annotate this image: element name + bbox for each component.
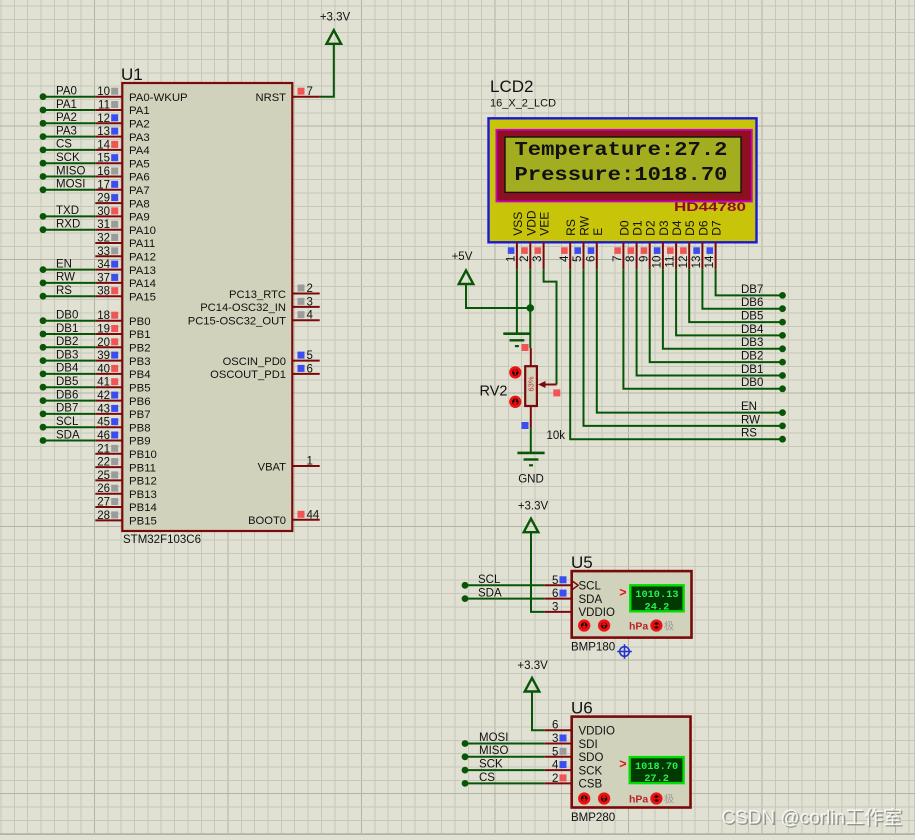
svg-text:D3: D3 [657, 220, 671, 236]
svg-text:SCK: SCK [56, 152, 80, 164]
LCD display LCD2 16_X_2_LCD [489, 118, 757, 242]
svg-text:11: 11 [98, 100, 110, 112]
svg-text:PA1: PA1 [56, 99, 77, 111]
svg-text:DB3: DB3 [741, 337, 763, 349]
wire LCD RS to terminal [570, 269, 786, 442]
wire LCD DB0 to terminal [623, 269, 785, 392]
svg-text:DB5: DB5 [56, 376, 78, 388]
svg-text:>: > [619, 757, 626, 771]
wire CS to U6 pin 2 [462, 772, 545, 787]
RV2 wiper arrow [538, 381, 560, 396]
LCD2 pin 5 (RW) [572, 215, 591, 269]
svg-text:DB7: DB7 [56, 403, 78, 415]
U6 hPa label [629, 793, 648, 805]
svg-text:VDD: VDD [524, 210, 538, 236]
svg-text:39: 39 [97, 350, 110, 362]
svg-text:D6: D6 [696, 220, 710, 236]
U1 pin 26 (PB13) [95, 483, 157, 501]
svg-text:43: 43 [97, 403, 110, 415]
power +3.3V (U5) [518, 501, 549, 533]
svg-text:D2: D2 [644, 220, 658, 236]
svg-text:+3.3V: +3.3V [517, 660, 548, 672]
potentiometer RV2 body [525, 366, 537, 406]
svg-text:PA2: PA2 [129, 119, 150, 131]
svg-text:RS: RS [741, 428, 757, 440]
svg-text:6: 6 [585, 256, 597, 262]
wire SCL to U5 [462, 574, 545, 589]
U1 value label STM32F103C6 [123, 534, 201, 546]
svg-text:PA10: PA10 [129, 225, 156, 237]
svg-text:3: 3 [307, 296, 313, 308]
svg-text:22: 22 [97, 457, 110, 469]
U6 pin 6 (VDDIO) [545, 720, 615, 738]
U1 pin 44 (BOOT0) [248, 509, 320, 527]
junction node VDD/+5V [527, 304, 535, 312]
wire SDA to U5 [462, 587, 545, 602]
svg-text:DB6: DB6 [56, 389, 78, 401]
svg-text:DB1: DB1 [741, 364, 763, 376]
svg-text:MISO: MISO [56, 165, 85, 177]
U1 pin 11 (PA1) [95, 100, 149, 118]
svg-text:6: 6 [552, 588, 558, 600]
sensor U5 BMP180 body [572, 571, 692, 638]
svg-text:20: 20 [97, 337, 110, 349]
U1 pin 34 (PA13) [95, 259, 156, 277]
svg-text:D4: D4 [670, 220, 684, 236]
wire LCD DB7 to terminal [716, 269, 786, 299]
LCD screen text line 1 [515, 139, 728, 161]
svg-text:PA3: PA3 [56, 125, 77, 137]
svg-text:PA12: PA12 [129, 252, 156, 264]
svg-text:RV2: RV2 [480, 384, 508, 400]
svg-text:13: 13 [97, 126, 110, 138]
svg-text:29: 29 [97, 193, 110, 205]
power +3.3V (NRST) [320, 12, 351, 44]
svg-text:hPa: hPa [629, 793, 648, 805]
U1 pin 12 (PA2) [95, 113, 149, 131]
U5 mode button [652, 621, 661, 630]
LCD2 pin 14 (D7) [704, 220, 723, 269]
svg-text:MOSI: MOSI [56, 179, 85, 191]
svg-text:21: 21 [97, 443, 110, 455]
wire LCD DB1 to terminal [637, 269, 786, 379]
LCD2 pin 8 (D1) [625, 220, 644, 269]
svg-text:25: 25 [97, 470, 110, 482]
svg-text:34: 34 [97, 259, 110, 271]
svg-text:VDDIO: VDDIO [579, 726, 615, 738]
svg-text:4: 4 [559, 255, 571, 262]
U6 value label BMP280 [571, 812, 615, 824]
wire LCD DB4 to terminal [676, 269, 786, 339]
U5 pin 6 (SDA) [545, 588, 603, 606]
U1 pin 33 (PA12) [95, 246, 156, 264]
U1 pin 42 (PB6) [95, 390, 150, 408]
svg-text:PA6: PA6 [129, 172, 150, 184]
U1 pin 27 (PB14) [95, 497, 157, 515]
svg-text:32: 32 [97, 233, 110, 245]
wire net DB3 to U1 pin 39 [40, 349, 96, 364]
svg-text:PA0: PA0 [56, 86, 77, 98]
U5 pin 5 (SCL) [545, 575, 602, 593]
svg-text:DB6: DB6 [741, 297, 763, 309]
svg-text:VEE: VEE [538, 212, 552, 236]
wire LCD DB3 to terminal [663, 269, 786, 352]
svg-text:PC14-OSC32_IN: PC14-OSC32_IN [200, 302, 286, 314]
RV2 up button [511, 368, 520, 377]
svg-text:RS: RS [564, 219, 578, 236]
svg-text:15: 15 [97, 153, 110, 165]
svg-text:45: 45 [97, 417, 110, 429]
LCD2 pin 2 (VDD) [519, 210, 538, 269]
U1 pin 19 (PB1) [95, 324, 150, 342]
U1 pin 28 (PB15) [95, 510, 157, 528]
svg-text:3: 3 [532, 256, 544, 262]
svg-text:1010.13: 1010.13 [635, 589, 678, 601]
wire net PA2 to U1 pin 12 [40, 112, 96, 127]
svg-text:VSS: VSS [511, 212, 525, 236]
U1 reference label [121, 65, 143, 84]
U5 up button [599, 621, 608, 630]
svg-text:GND: GND [518, 474, 544, 486]
wire LCD RW to terminal [584, 269, 786, 429]
svg-text:PA2: PA2 [56, 112, 77, 124]
svg-text:12: 12 [678, 256, 690, 269]
LCD2 pin 4 (RS) [559, 219, 578, 269]
U5 display value 1010.13 / 24.2 [630, 585, 683, 613]
LCD2 pin 9 (D2) [638, 220, 657, 269]
wire NRST to +3.3V [320, 44, 334, 97]
svg-text:PA4: PA4 [129, 145, 150, 157]
watermark [721, 807, 903, 831]
U1 pin 25 (PB12) [95, 470, 157, 488]
U1 pin 10 (PA0-WKUP) [95, 86, 187, 104]
svg-text:PC13_RTC: PC13_RTC [229, 289, 286, 301]
svg-text:46: 46 [97, 430, 110, 442]
svg-text:DB2: DB2 [56, 336, 78, 348]
svg-text:SDA: SDA [478, 587, 502, 599]
svg-text:DB4: DB4 [56, 363, 79, 375]
U6 reference label [571, 699, 593, 718]
svg-text:OSCOUT_PD1: OSCOUT_PD1 [210, 369, 286, 381]
svg-text:RW: RW [56, 272, 75, 284]
svg-text:SCL: SCL [478, 574, 501, 586]
U1 pin 43 (PB7) [95, 403, 150, 421]
svg-text:PB8: PB8 [129, 422, 151, 434]
svg-text:CSDN @corlin工作室: CSDN @corlin工作室 [721, 807, 902, 829]
svg-text:PB15: PB15 [129, 516, 157, 528]
svg-text:14: 14 [704, 255, 716, 268]
svg-text:16: 16 [97, 166, 110, 178]
svg-text:30: 30 [97, 206, 110, 218]
svg-text:SDA: SDA [579, 594, 603, 606]
U6 mode button [652, 794, 661, 803]
U1 pin 46 (PB9) [95, 430, 150, 448]
svg-text:>: > [619, 586, 626, 600]
svg-text:7: 7 [612, 256, 624, 262]
svg-text:DB2: DB2 [741, 351, 763, 363]
svg-text:33: 33 [97, 246, 110, 258]
LCD2 pin 11 (D4) [665, 220, 684, 269]
U1 pin 20 (PB2) [95, 337, 150, 355]
U1 pin 1 (VBAT) [258, 456, 320, 474]
svg-text:12: 12 [97, 113, 110, 125]
svg-text:CS: CS [479, 772, 495, 784]
U1 pin 29 (PA8) [95, 193, 149, 211]
U1 pin 18 (PB0) [95, 310, 150, 328]
svg-text:5: 5 [572, 256, 584, 262]
svg-text:2: 2 [519, 256, 531, 262]
svg-text:PB11: PB11 [129, 462, 156, 474]
svg-text:1: 1 [506, 256, 518, 262]
U5 pin 5 clock chevron [572, 581, 578, 590]
svg-text:2: 2 [307, 283, 313, 295]
svg-text:14: 14 [97, 139, 110, 151]
U1 pin 3 (PC14-OSC32_IN) [200, 296, 320, 314]
svg-text:3: 3 [552, 733, 558, 745]
U1 pin 22 (PB11) [95, 457, 156, 475]
wire RV2 bottom to GND [530, 428, 532, 453]
svg-text:E: E [591, 228, 605, 236]
wire net RW to U1 pin 37 [40, 272, 96, 287]
U5 grey unit glyph [664, 620, 674, 633]
U1 pin 41 (PB5) [95, 377, 150, 395]
RV2 down button [511, 397, 520, 406]
U1 pin 39 (PB3) [95, 350, 150, 368]
svg-text:PB10: PB10 [129, 449, 157, 461]
U1 pin 15 (PA5) [95, 153, 149, 171]
wire net CS to U1 pin 14 [40, 139, 96, 154]
svg-text:MOSI: MOSI [479, 732, 508, 744]
LCD2 value label 16_X_2_LCD [490, 98, 556, 110]
wire SCK to U6 pin 4 [462, 759, 545, 774]
svg-text:+3.3V: +3.3V [320, 12, 351, 24]
LCD2 reference label [490, 77, 533, 96]
svg-text:41: 41 [97, 377, 110, 389]
svg-text:CSB: CSB [579, 779, 603, 791]
RV2 top pin stub [522, 344, 531, 366]
sensor U6 BMP280 body [572, 717, 691, 808]
LCD2 pin 12 (D5) [678, 220, 697, 269]
svg-text:PB13: PB13 [129, 489, 157, 501]
svg-text:DB3: DB3 [56, 349, 78, 361]
svg-text:PB6: PB6 [129, 396, 151, 408]
svg-text:U6: U6 [571, 699, 593, 718]
svg-text:11: 11 [665, 256, 677, 268]
U1 pin 17 (PA7) [95, 179, 149, 197]
svg-text:PA5: PA5 [129, 158, 150, 170]
ground (LCD VSS) [503, 334, 530, 346]
wire net SCL to U1 pin 45 [40, 416, 96, 431]
svg-text:CS: CS [56, 139, 72, 151]
svg-text:SDI: SDI [579, 739, 598, 751]
svg-text:1: 1 [307, 456, 313, 468]
svg-text:PA9: PA9 [129, 212, 150, 224]
U1 pin 37 (PA14) [95, 272, 156, 290]
svg-text:PA15: PA15 [129, 291, 156, 303]
svg-text:27: 27 [97, 497, 110, 509]
U1 pin 13 (PA3) [95, 126, 149, 144]
svg-text:SCL: SCL [56, 416, 79, 428]
svg-text:SDA: SDA [56, 429, 80, 441]
wire net EN to U1 pin 34 [40, 258, 96, 273]
svg-text:EN: EN [741, 401, 757, 413]
U1 pin 21 (PB10) [95, 443, 157, 461]
wire LCD VDD down to RV2 top [529, 269, 531, 348]
svg-text:PA11: PA11 [129, 238, 155, 250]
wire net DB6 to U1 pin 42 [40, 389, 96, 404]
svg-text:38: 38 [97, 286, 110, 298]
svg-text:PB5: PB5 [129, 382, 151, 394]
U5 reference label [571, 553, 593, 572]
wire LCD DB2 to terminal [650, 269, 786, 365]
U1 pin 4 (PC15-OSC32_OUT) [188, 310, 320, 328]
svg-text:6: 6 [307, 363, 313, 375]
wire net DB1 to U1 pin 19 [40, 323, 96, 338]
U6 pin 3 (SDI) [545, 733, 598, 751]
svg-text:MISO: MISO [479, 745, 508, 757]
svg-text:BMP180: BMP180 [571, 642, 615, 654]
svg-text:DB0: DB0 [741, 377, 763, 389]
U1 pin 2 (PC13_RTC) [229, 283, 320, 301]
U6 display value 1018.70 / 27.2 [630, 757, 684, 785]
svg-text:26: 26 [97, 483, 110, 495]
svg-text:hPa: hPa [629, 621, 648, 633]
svg-text:STM32F103C6: STM32F103C6 [123, 534, 201, 546]
svg-text:BOOT0: BOOT0 [248, 515, 286, 527]
svg-text:8: 8 [625, 256, 637, 262]
svg-text:RW: RW [578, 215, 592, 235]
svg-text:DB0: DB0 [56, 310, 78, 322]
U6 down button [580, 794, 589, 803]
svg-text:31: 31 [97, 219, 110, 231]
wire net PA0 to U1 pin 10 [40, 86, 96, 101]
svg-text:13: 13 [691, 256, 703, 269]
U1 pin 30 (PA9) [95, 206, 149, 224]
svg-text:LCD2: LCD2 [490, 77, 533, 96]
U1 pin 45 (PB8) [95, 417, 150, 435]
svg-text:SCK: SCK [579, 765, 603, 777]
svg-text:17: 17 [97, 179, 110, 191]
svg-text:D0: D0 [617, 220, 631, 236]
svg-text:PC15-OSC32_OUT: PC15-OSC32_OUT [188, 316, 286, 328]
LCD2 pin 6 (E) [585, 228, 604, 269]
svg-text:D5: D5 [683, 220, 697, 236]
svg-text:SCK: SCK [479, 759, 503, 771]
svg-text:16_X_2_LCD: 16_X_2_LCD [490, 98, 556, 110]
svg-text:PB4: PB4 [129, 369, 151, 381]
RV2 bottom pin stub [522, 406, 531, 429]
wire MISO to U6 pin 5 [462, 745, 545, 760]
svg-text:63%: 63% [527, 376, 536, 391]
wire net RXD to U1 pin 31 [40, 219, 96, 234]
svg-text:PB0: PB0 [129, 316, 151, 328]
LCD2 pin 13 (D6) [691, 220, 710, 269]
svg-text:PB2: PB2 [129, 343, 151, 355]
wire +3.3V to U5 VDDIO [531, 532, 545, 612]
svg-text:+5V: +5V [452, 251, 473, 263]
U1 pin 5 (OSCIN_PD0) [223, 350, 320, 368]
RV2 reference label [480, 384, 508, 400]
U6 display pointer [619, 757, 626, 771]
svg-text:RW: RW [741, 414, 760, 426]
wire LCD DB5 to terminal [689, 269, 786, 325]
U6 grey unit glyph [664, 792, 674, 805]
wire net SCK to U1 pin 15 [40, 152, 96, 167]
svg-text:EN: EN [56, 258, 72, 270]
U1 pin 32 (PA11) [95, 233, 155, 251]
U6 pin 5 (SDO) [545, 746, 604, 764]
U5 display pointer [619, 586, 626, 600]
U6 pin 4 (SCK) [545, 760, 603, 778]
svg-text:1018.70: 1018.70 [635, 761, 678, 773]
wire LCD DB6 to terminal [702, 269, 785, 312]
LCD2 pin 10 (D3) [652, 220, 671, 269]
U6 pin 2 (CSB) [545, 773, 603, 791]
svg-text:NRST: NRST [256, 92, 287, 104]
svg-text:37: 37 [97, 272, 110, 284]
wire net RS to U1 pin 38 [40, 285, 96, 300]
svg-text:10: 10 [652, 256, 664, 269]
svg-text:BMP280: BMP280 [571, 812, 615, 824]
wire net PA1 to U1 pin 11 [40, 99, 96, 114]
svg-text:OSCIN_PD0: OSCIN_PD0 [223, 356, 286, 368]
svg-text:VDDIO: VDDIO [579, 607, 615, 619]
U1 pin 16 (PA6) [95, 166, 149, 184]
svg-text:42: 42 [97, 390, 110, 402]
wire net DB0 to U1 pin 18 [40, 310, 96, 325]
svg-text:4: 4 [307, 310, 314, 322]
svg-text:PB3: PB3 [129, 356, 151, 368]
wire LCD VSS to ground [516, 269, 518, 334]
LCD controller label HD44780 [674, 202, 746, 214]
svg-text:RS: RS [56, 285, 72, 297]
LCD screen text line 2 [515, 164, 728, 186]
wire MOSI to U6 pin 3 [462, 732, 545, 747]
svg-text:SDO: SDO [579, 752, 604, 764]
svg-text:24.2: 24.2 [645, 601, 670, 613]
wire LCD EN to terminal [597, 269, 786, 416]
origin marker (crosshair) [617, 644, 632, 659]
U5 hPa label [629, 621, 648, 633]
svg-text:27.2: 27.2 [644, 773, 669, 785]
wire net SDA to U1 pin 46 [40, 429, 96, 444]
svg-text:PB1: PB1 [129, 329, 151, 341]
svg-text:PB7: PB7 [129, 409, 151, 421]
RV2 value label 10k [547, 430, 566, 442]
svg-text:5: 5 [552, 746, 558, 758]
U1 pin 38 (PA15) [95, 286, 156, 304]
wire net DB2 to U1 pin 20 [40, 336, 96, 351]
svg-text:PA8: PA8 [129, 198, 150, 210]
power +5V [452, 251, 474, 284]
microcontroller U1 STM32F103C6 body [122, 83, 292, 531]
svg-text:DB5: DB5 [741, 311, 763, 323]
svg-text:PA14: PA14 [129, 278, 156, 290]
svg-text:DB1: DB1 [56, 323, 78, 335]
svg-text:9: 9 [638, 256, 650, 262]
svg-text:6: 6 [552, 720, 558, 732]
svg-text:TXD: TXD [56, 205, 79, 217]
svg-text:10: 10 [97, 86, 110, 98]
LCD2 pin 3 (VEE) [532, 212, 551, 269]
wire net MISO to U1 pin 16 [40, 165, 96, 180]
wire net DB4 to U1 pin 40 [40, 363, 96, 378]
U5 down button [580, 621, 589, 630]
svg-text:5: 5 [552, 575, 558, 587]
U5 pin 3 (VDDIO) [545, 601, 615, 619]
svg-text:Pressure:1018.70: Pressure:1018.70 [515, 164, 728, 186]
wire +5V to LCD VDD [466, 284, 530, 308]
